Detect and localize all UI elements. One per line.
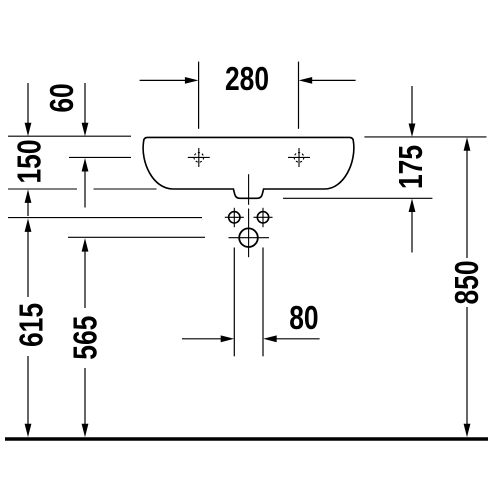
wire dim 60 upper shaft (84, 83, 86, 126)
node reference line L2 faucet-hole level (69, 156, 131, 158)
wire drain pipe right (262, 248, 264, 357)
node label 150 (12, 139, 48, 183)
node reference line L3 basin-bottom level seg1 (8, 188, 77, 190)
node basin outline with drain tab (143, 137, 354, 198)
wire dim 150 upper shaft (27, 83, 29, 126)
node drain hole (239, 228, 258, 247)
node reference line L6 drain-center level (68, 236, 205, 238)
wire dim 850 shaft upper (466, 149, 468, 259)
wire dim 565 shaft lower (84, 368, 86, 427)
node label 60 (44, 83, 80, 112)
svg-text:615: 615 (14, 303, 50, 347)
wire dim 150 lower shaft (27, 200, 29, 217)
wire dim 565 shaft upper (84, 250, 86, 309)
wire dim 615 shaft upper (27, 230, 29, 298)
node label 175 (393, 145, 429, 189)
wire 80 left arrow shaft (182, 338, 225, 340)
wire extension line right of 280 (298, 62, 300, 129)
node reference line L3 basin-bottom level seg2 (94, 188, 157, 190)
node reference line L1 basin-top level right (364, 136, 486, 138)
wire dim 850 shaft lower (466, 307, 468, 427)
node fixing hole left (229, 212, 240, 223)
svg-text:565: 565 (68, 316, 104, 360)
node label 80 (289, 300, 318, 336)
wire extension line left of 280 (198, 62, 200, 129)
wire 80 right arrow shaft (273, 338, 320, 340)
wire drain pipe left (233, 248, 235, 357)
wire dim 615 shaft lower (27, 356, 29, 427)
svg-text:850: 850 (449, 260, 485, 304)
svg-text:80: 80 (289, 300, 318, 336)
node fixing hole right (257, 212, 268, 223)
node floor line (5, 437, 488, 441)
node center line of basin (248, 174, 250, 257)
node label 280 (225, 61, 269, 97)
node faucet hole right crosshair (288, 148, 310, 167)
svg-text:280: 280 (225, 61, 269, 97)
wire dim 175 lower shaft (411, 210, 413, 253)
node label 565 (68, 316, 104, 360)
node label 850 (449, 260, 485, 304)
node reference line L5 tab-bottom level (283, 197, 432, 199)
svg-text:175: 175 (393, 145, 429, 189)
svg-text:60: 60 (44, 83, 80, 112)
node reference line L4 small-hole level (8, 217, 202, 219)
node faucet hole left crosshair (188, 148, 210, 167)
wire 280 left arrow shaft (140, 79, 188, 81)
node arrowheads (25, 77, 471, 437)
node label 615 (14, 303, 50, 347)
node reference line L1 basin-top level left (8, 135, 131, 137)
svg-text:150: 150 (12, 139, 48, 183)
wire dim 175 upper shaft (411, 86, 413, 127)
wire dim 60 lower shaft (84, 168, 86, 208)
wire 280 right arrow shaft (309, 79, 356, 81)
